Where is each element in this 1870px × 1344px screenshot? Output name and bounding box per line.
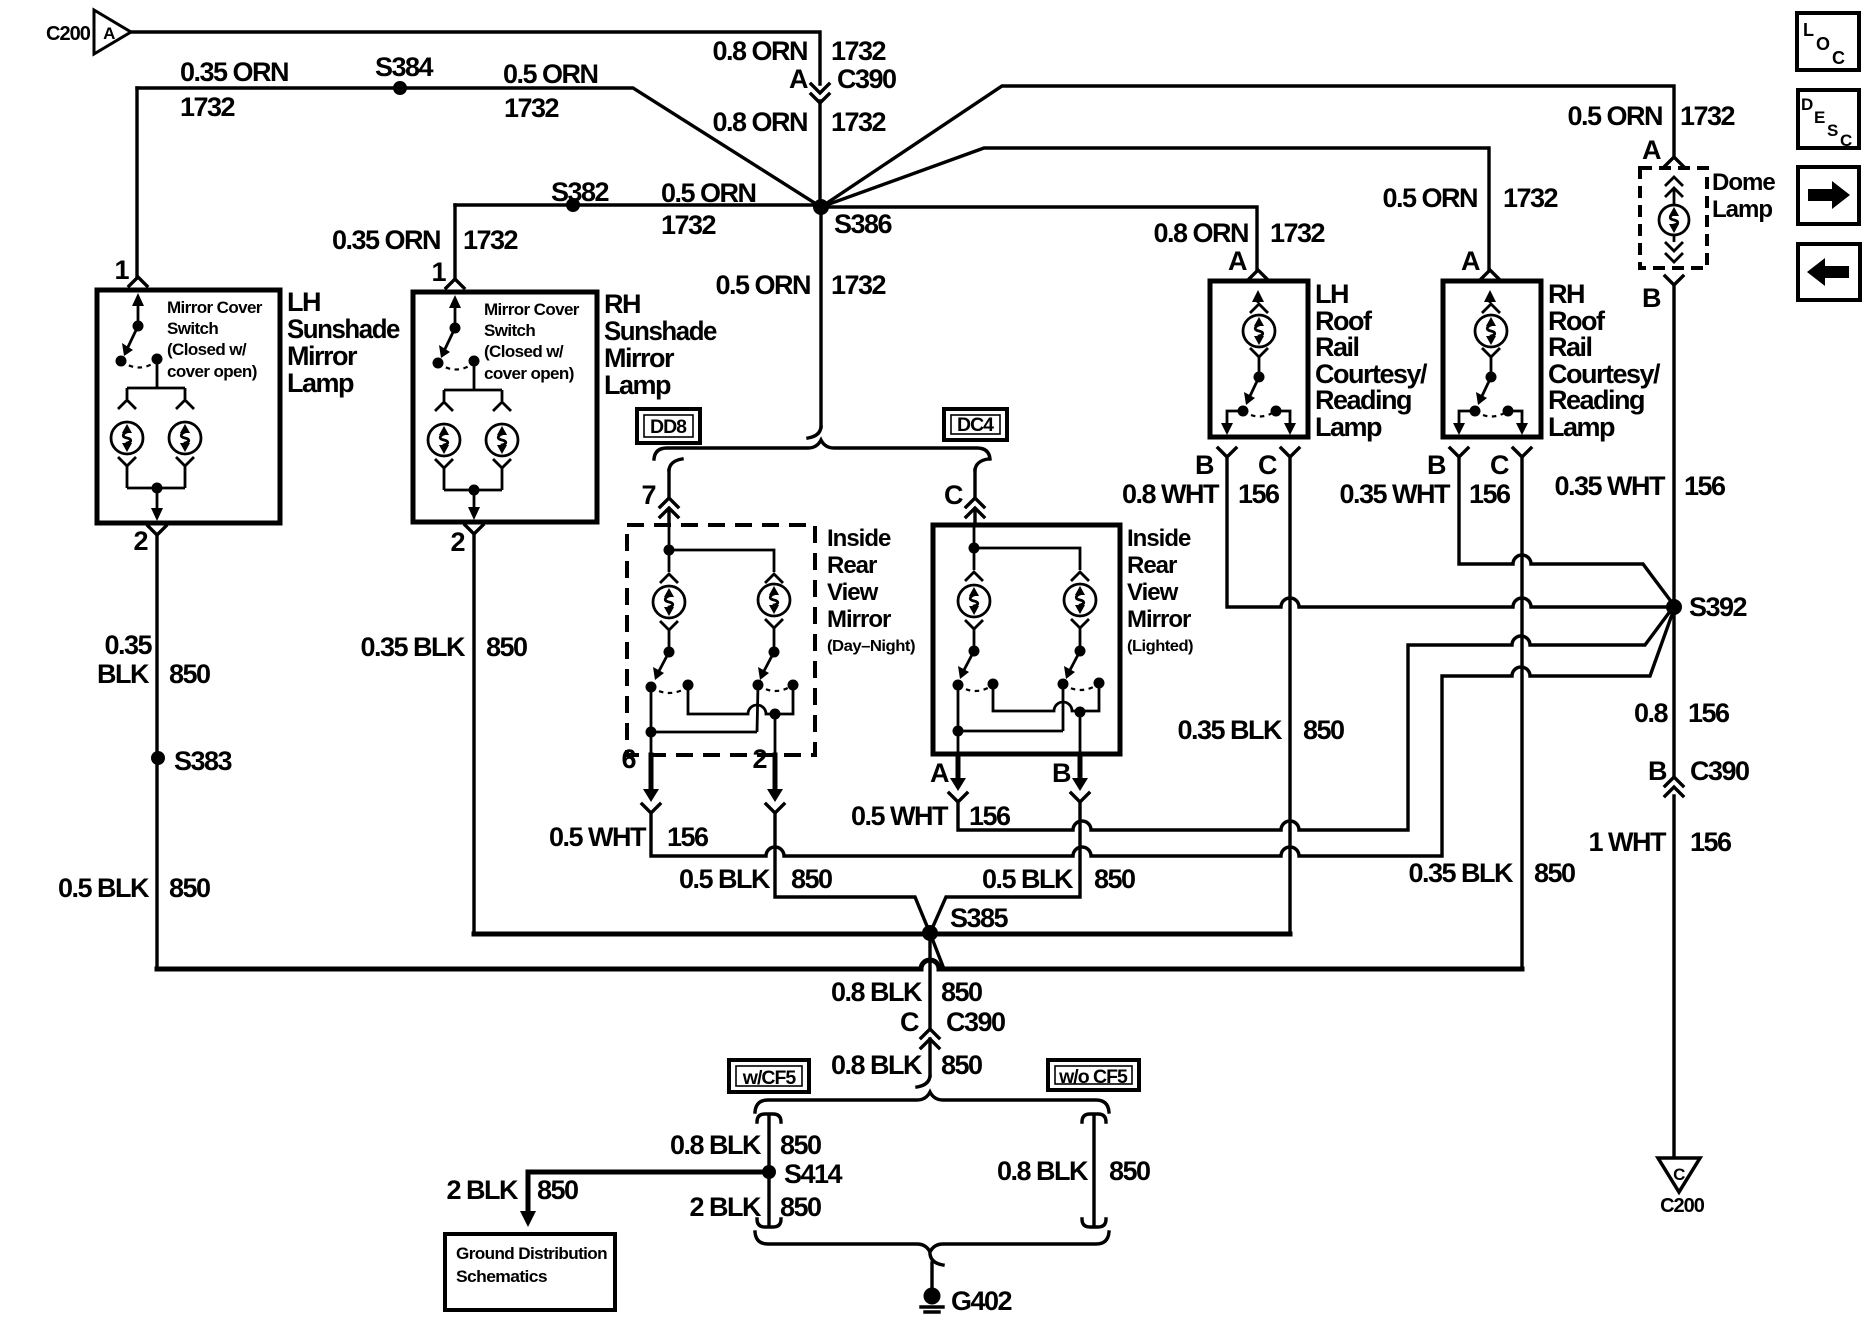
label 0.35 BLK | 850 (RH drop)	[360, 632, 527, 662]
harness option brace w/CF5 / w/o CF5 (top)	[755, 1092, 1109, 1112]
svg-text:0.5 WHT: 0.5 WHT	[549, 822, 647, 852]
svg-text:Lamp: Lamp	[1548, 412, 1615, 442]
ground G402	[921, 1286, 1012, 1316]
pin A terminal (RH roof)	[1481, 270, 1499, 279]
svg-text:C: C	[900, 1007, 919, 1037]
wire LH roof pin C down to ground bus	[1288, 457, 1291, 934]
svg-text:Rail: Rail	[1315, 332, 1359, 362]
svg-text:C390: C390	[946, 1007, 1005, 1037]
svg-text:1732: 1732	[1680, 101, 1735, 131]
label Inside Rear View Mirror (Lighted)	[1127, 525, 1193, 655]
svg-text:156: 156	[1238, 479, 1280, 509]
svg-text:cover open): cover open)	[167, 362, 257, 381]
pin A terminal (LH roof)	[1249, 270, 1267, 279]
svg-text:A: A	[789, 64, 808, 94]
svg-text:B: B	[1648, 756, 1667, 786]
pin 1 terminal (LH cover switch)	[129, 277, 147, 286]
switch arm (RH cover switch)	[433, 295, 480, 370]
legend box LOC	[1797, 13, 1859, 70]
wire RH roof pin B to S392 (branch y=564)	[1459, 457, 1673, 604]
internal feed split (Day-Night)	[660, 525, 783, 583]
label 0.35 WHT | 156 (right side)	[1554, 471, 1726, 501]
svg-text:DC4: DC4	[957, 414, 994, 436]
label 0.8 ORN 1732 (below C390)	[712, 107, 885, 137]
svg-text:Inside: Inside	[1127, 525, 1191, 552]
pin B terminal (RH roof)	[1450, 448, 1468, 457]
wire 0.35 BLK 850 (LH ground drop)	[155, 535, 158, 969]
svg-text:2: 2	[450, 527, 464, 557]
svg-text:S382: S382	[551, 177, 609, 207]
svg-text:C: C	[1840, 131, 1852, 150]
svg-text:w/CF5: w/CF5	[742, 1067, 797, 1089]
svg-text:156: 156	[1690, 827, 1732, 857]
label 0.35 ORN / 1732 (top left)	[180, 57, 288, 122]
svg-text:Dome: Dome	[1712, 169, 1775, 196]
svg-text:S386: S386	[834, 209, 893, 239]
wire dome lamp B down right side 0.35 WHT 156	[1672, 285, 1675, 777]
wire 0.35 ORN 1732 (left drop to LH mirror cover switch)	[135, 88, 138, 277]
label 0.8 BLK | 850 (below C390)	[831, 1050, 982, 1080]
svg-text:w/o CF5: w/o CF5	[1058, 1066, 1128, 1088]
pin A terminal (dome lamp)	[1665, 157, 1683, 166]
label 2 BLK | 850 (w/CF5 lower)	[689, 1192, 821, 1222]
connector C200 pin A (top left triangle)	[46, 10, 131, 54]
bulb R (RH cover switch)	[486, 424, 518, 456]
wire 0.8 BLK 850 (below C390)	[928, 1039, 931, 1076]
pin C terminal (LH roof)	[1281, 448, 1299, 457]
svg-text:C390: C390	[1690, 756, 1749, 786]
label 0.5 WHT | 156 (pin A)	[851, 801, 1011, 831]
splice S385	[922, 903, 1009, 941]
label 0.5 ORN | 1732 (dome feed)	[1567, 101, 1734, 131]
wire 0.8 ORN 1732 (C390 to S386)	[818, 101, 821, 207]
bulb feed (RH roof)	[1482, 290, 1500, 313]
off-page arrow (to ground distribution)	[520, 1211, 536, 1227]
svg-text:1732: 1732	[463, 225, 518, 255]
internal wiring to pin B (Lighted)	[993, 683, 1099, 754]
svg-text:2 BLK: 2 BLK	[446, 1175, 519, 1205]
wire LH roof pin B to S392 (main horizontal y=607)	[1227, 457, 1674, 607]
svg-text:Rear: Rear	[1127, 552, 1177, 579]
pin C terminal (RH roof)	[1513, 448, 1531, 457]
label LH Sunshade Mirror Lamp	[287, 287, 400, 398]
label LH Roof Rail Courtesy/Reading Lamp	[1315, 279, 1428, 442]
label 0.35 BLK | 850 (LH roof pin C)	[1177, 715, 1344, 745]
svg-text:0.8 ORN: 0.8 ORN	[712, 107, 807, 137]
svg-text:0.5 WHT: 0.5 WHT	[851, 801, 949, 831]
svg-text:850: 850	[941, 977, 982, 1007]
label 0.5 BLK | 850 (pin 2)	[679, 864, 832, 894]
legend box right arrow	[1798, 167, 1859, 224]
svg-text:0.8 BLK: 0.8 BLK	[831, 1050, 923, 1080]
internal wiring to pin A (Lighted)	[953, 684, 1064, 754]
svg-text:B: B	[1052, 758, 1071, 788]
label 0.8 BLK | 850 (w/o CF5)	[997, 1156, 1150, 1186]
svg-text:Reading: Reading	[1548, 385, 1644, 415]
pin C drop with hook and connector	[944, 459, 988, 525]
bulb L (LH cover switch)	[111, 422, 143, 454]
label 0.35 BLK | 850 (two lines)	[97, 630, 210, 689]
svg-text:850: 850	[1094, 864, 1135, 894]
svg-text:View: View	[1127, 579, 1179, 606]
pin A connector (below Lighted box)	[930, 754, 967, 802]
svg-text:0.8 ORN: 0.8 ORN	[712, 36, 807, 66]
svg-text:S385: S385	[950, 903, 1009, 933]
dome lamp internal connector top	[1665, 177, 1683, 205]
wire S382 horizontal 0.5 ORN 1732	[455, 203, 821, 206]
svg-text:0.5 ORN: 0.5 ORN	[1567, 101, 1662, 131]
pin 2 connector (below Day-Night box)	[752, 744, 784, 813]
wire S385 down 0.8 BLK 850	[928, 934, 931, 1029]
svg-text:1732: 1732	[661, 210, 716, 240]
label 2 BLK | 850 (left)	[446, 1175, 578, 1205]
switch outputs to pins B and C (RH roof)	[1453, 411, 1528, 435]
svg-text:0.5 ORN: 0.5 ORN	[503, 59, 598, 89]
svg-text:Rear: Rear	[827, 552, 877, 579]
svg-text:0.8: 0.8	[1634, 698, 1669, 728]
svg-text:Switch: Switch	[484, 321, 535, 340]
svg-text:0.5 ORN: 0.5 ORN	[715, 270, 810, 300]
svg-text:2 BLK: 2 BLK	[689, 1192, 762, 1222]
bulb terminals top (RH cover switch)	[435, 402, 453, 411]
wire switch to bulbs (LH cover switch)	[127, 359, 185, 399]
svg-text:E: E	[1814, 108, 1825, 127]
svg-text:850: 850	[537, 1175, 578, 1205]
connector C200 pin C (bottom right triangle)	[1658, 1158, 1705, 1217]
internal feed split (Lighted)	[965, 525, 1089, 581]
svg-text:156: 156	[1469, 479, 1511, 509]
svg-text:1732: 1732	[180, 92, 235, 122]
svg-text:7: 7	[641, 480, 655, 510]
pin B terminal (dome lamp)	[1665, 276, 1683, 285]
wire end hook above DD8/DC4 brace	[808, 427, 821, 438]
svg-text:0.5 ORN: 0.5 ORN	[661, 178, 756, 208]
tag box w/o CF5	[1048, 1060, 1139, 1090]
svg-text:(Lighted): (Lighted)	[1127, 638, 1193, 655]
svg-text:A: A	[103, 24, 115, 43]
svg-text:Reading: Reading	[1315, 385, 1411, 415]
connector A C390 (inline, pointing down)	[789, 64, 896, 103]
svg-text:Mirror Cover: Mirror Cover	[167, 298, 263, 317]
svg-text:C390: C390	[837, 64, 896, 94]
svg-text:1732: 1732	[831, 107, 886, 137]
label 0.35 ORN | 1732	[332, 225, 518, 255]
svg-text:850: 850	[780, 1192, 821, 1222]
label 0.8 ORN 1732 (above C390)	[712, 36, 885, 66]
svg-text:Sunshade: Sunshade	[604, 316, 717, 346]
pin 2 terminal (RH cover switch)	[465, 525, 483, 534]
svg-text:LH: LH	[1315, 279, 1348, 309]
bulb terminals bottom + join (RH cover switch)	[435, 459, 511, 520]
wire pin 6 route to S392	[651, 609, 1674, 856]
splice S386	[813, 199, 893, 239]
legend box left arrow	[1798, 244, 1860, 300]
svg-text:1732: 1732	[831, 270, 886, 300]
pin 7 drop with hook and connector	[641, 459, 682, 525]
wire bottom horizontal to S392 branch (y=969)	[157, 960, 1522, 969]
svg-text:B: B	[1642, 283, 1661, 313]
pin labels B C (RH roof)	[1427, 450, 1509, 480]
wire 2 BLK 850 to ground distribution	[528, 1172, 769, 1209]
text Mirror Cover Switch (LH)	[167, 298, 263, 381]
svg-text:View: View	[827, 579, 879, 606]
svg-text:C: C	[1673, 1165, 1685, 1184]
ground distribution schematics box	[445, 1234, 615, 1310]
label 0.5 WHT | 156 (pin 6)	[549, 822, 709, 852]
svg-text:S383: S383	[174, 746, 233, 776]
svg-text:2: 2	[752, 744, 766, 774]
svg-text:Rail: Rail	[1548, 332, 1592, 362]
svg-text:A: A	[1642, 135, 1661, 165]
label RH Sunshade Mirror Lamp	[604, 289, 717, 400]
svg-text:0.8 WHT: 0.8 WHT	[1122, 479, 1220, 509]
wire 1 WHT 156 (to C200-C)	[1672, 796, 1675, 1156]
svg-text:0.35 ORN: 0.35 ORN	[180, 57, 288, 87]
svg-text:0.35 WHT: 0.35 WHT	[1339, 479, 1451, 509]
bulb R (LH cover switch)	[169, 422, 201, 454]
internal wiring to pin 6 (Day-Night)	[646, 685, 759, 755]
bulb L (Lighted)	[958, 585, 990, 617]
bulb L (Day-Night)	[653, 586, 685, 618]
svg-text:A: A	[1228, 246, 1247, 276]
svg-text:1 WHT: 1 WHT	[1589, 827, 1668, 857]
wire S386 to RH roof rail feed 0.5 ORN 1732 (second diagonal)	[821, 148, 1489, 269]
connector C C390 (inline, pointing up)	[900, 1007, 1005, 1048]
bulb R (Lighted)	[1064, 584, 1096, 616]
label Inside Rear View Mirror (Day-Night)	[827, 525, 915, 655]
splice S414	[762, 1159, 843, 1189]
label 0.5 BLK | 850	[58, 873, 210, 903]
svg-text:1732: 1732	[504, 93, 559, 123]
label 1 WHT | 156	[1589, 827, 1733, 857]
svg-text:A: A	[930, 758, 949, 788]
svg-text:0.8 BLK: 0.8 BLK	[670, 1130, 762, 1160]
wire S386 to LH roof rail feed 0.8 ORN 1732	[821, 207, 1257, 269]
connector B C390 (inline, pointing up)	[1648, 756, 1749, 796]
label 0.8 BLK | 850 (above C390)	[831, 977, 982, 1007]
svg-text:Lamp: Lamp	[1315, 412, 1382, 442]
tag box w/CF5	[729, 1060, 809, 1092]
label RH Roof Rail Courtesy/Reading Lamp	[1548, 279, 1661, 442]
switch R (Lighted)	[1058, 619, 1105, 690]
svg-text:LH: LH	[287, 287, 320, 317]
svg-text:(Day–Night): (Day–Night)	[827, 638, 915, 655]
svg-text:0.35: 0.35	[104, 630, 152, 660]
svg-text:0.35 ORN: 0.35 ORN	[332, 225, 440, 255]
switch L (Day-Night)	[646, 621, 694, 693]
bulb terminals top (LH cover switch)	[118, 400, 136, 409]
harness option brace DD8/DC4	[654, 440, 990, 459]
svg-text:RH: RH	[1548, 279, 1584, 309]
svg-text:1732: 1732	[1503, 183, 1558, 213]
LH mirror cover switch box	[97, 290, 280, 523]
svg-text:1732: 1732	[831, 36, 886, 66]
svg-text:850: 850	[1109, 1156, 1150, 1186]
svg-text:C200: C200	[46, 23, 91, 45]
wire 0.8 ORN 1732 from C200-A to C390 (top horizontal + vertical)	[131, 32, 820, 84]
svg-text:0.5 BLK: 0.5 BLK	[58, 873, 150, 903]
switch L (Lighted)	[953, 620, 999, 691]
internal wiring to pin 2 (Day-Night)	[688, 685, 793, 755]
svg-text:0.35 WHT: 0.35 WHT	[1554, 471, 1666, 501]
dome lamp dashed box	[1640, 168, 1707, 268]
wire pin 2 route to S385	[775, 813, 929, 931]
pin 6 connector (below Day-Night box)	[621, 744, 660, 813]
wire S384 horizontal 0.5 ORN 1732	[137, 88, 821, 207]
svg-text:(Closed w/: (Closed w/	[484, 342, 564, 361]
label 0.5 BLK | 850 (pin B)	[982, 864, 1135, 894]
bulb terminals bottom + join (LH cover switch)	[118, 457, 194, 521]
svg-text:Mirror: Mirror	[827, 606, 891, 633]
splice S384	[375, 52, 434, 95]
svg-text:156: 156	[667, 822, 709, 852]
wire S386 to dome lamp feed 0.5 ORN 1732 (upper right diagonal)	[821, 86, 1674, 207]
svg-text:C: C	[1832, 48, 1845, 68]
svg-text:O: O	[1816, 34, 1830, 54]
label 0.8 WHT | 156 (LH roof pin B)	[1122, 479, 1280, 509]
wire switch to bulbs (RH cover switch)	[444, 361, 502, 401]
tag box DD8	[637, 409, 700, 443]
svg-text:1: 1	[114, 255, 129, 285]
svg-text:0.5 BLK: 0.5 BLK	[982, 864, 1074, 894]
inside rear view mirror (Day-Night) dashed box	[627, 525, 815, 755]
svg-text:B: B	[1195, 450, 1214, 480]
svg-text:156: 156	[969, 801, 1011, 831]
svg-text:850: 850	[1303, 715, 1344, 745]
svg-text:Lamp: Lamp	[1712, 196, 1772, 223]
svg-text:Mirror: Mirror	[604, 343, 675, 373]
label 0.5 ORN / 1732 (left of S386)	[661, 178, 756, 240]
svg-text:0.35 BLK: 0.35 BLK	[360, 632, 466, 662]
svg-text:850: 850	[486, 632, 527, 662]
svg-text:(Closed w/: (Closed w/	[167, 340, 247, 359]
label 0.5 ORN / 1732 (right of S384)	[503, 59, 598, 123]
svg-text:Lamp: Lamp	[287, 368, 354, 398]
svg-text:Mirror: Mirror	[1127, 606, 1191, 633]
svg-text:0.8 BLK: 0.8 BLK	[997, 1156, 1089, 1186]
pin 2 terminal (LH cover switch)	[148, 526, 166, 535]
svg-text:0.35 BLK: 0.35 BLK	[1177, 715, 1283, 745]
wire S386 down 0.5 ORN 1732 (to DD8/DC4 split)	[819, 207, 822, 427]
label Dome Lamp	[1712, 169, 1775, 223]
svg-text:1732: 1732	[1270, 218, 1325, 248]
bulb feed (LH roof)	[1250, 290, 1268, 313]
harness option brace (bottom, to G402)	[755, 1232, 1109, 1252]
dome lamp internal connector bottom	[1665, 235, 1683, 262]
wire RH roof pin C down to ground bus	[1520, 457, 1523, 969]
wire hook below bottom brace	[930, 1254, 943, 1265]
svg-text:S414: S414	[784, 1159, 843, 1189]
switch outputs to pins B and C (LH roof)	[1221, 411, 1296, 435]
w/CF5 branch bracket	[757, 1114, 781, 1227]
wire 0.35 ORN 1732 (drop to RH mirror cover switch)	[453, 205, 456, 279]
svg-text:cover open): cover open)	[484, 364, 574, 383]
label 0.5 ORN | 1732 (RH roof feed)	[1382, 183, 1557, 213]
label 0.8 ORN | 1732 (LH roof feed)	[1153, 218, 1324, 248]
svg-text:C: C	[1490, 450, 1509, 480]
bulb L (RH cover switch)	[428, 424, 460, 456]
svg-text:Inside: Inside	[827, 525, 891, 552]
svg-text:Lamp: Lamp	[604, 370, 671, 400]
svg-text:0.8 BLK: 0.8 BLK	[831, 977, 923, 1007]
splice S382	[551, 177, 609, 212]
wire ground bus horizontal y=934 to S385	[474, 932, 1290, 937]
RH mirror cover switch box	[413, 292, 597, 522]
switch arm (LH cover switch)	[116, 293, 163, 368]
bulb (LH roof)	[1243, 315, 1275, 347]
svg-text:1: 1	[431, 257, 446, 287]
pin B connector (below Lighted box)	[1052, 754, 1089, 802]
svg-text:2: 2	[133, 526, 147, 556]
svg-text:B: B	[1427, 450, 1446, 480]
svg-text:C: C	[944, 480, 963, 510]
switch R (Day-Night)	[753, 619, 799, 691]
label 0.5 ORN | 1732 (S386 down)	[715, 270, 885, 300]
svg-text:0.5 BLK: 0.5 BLK	[679, 864, 771, 894]
svg-text:0.5 ORN: 0.5 ORN	[1382, 183, 1477, 213]
svg-text:G402: G402	[951, 1286, 1012, 1316]
RH roof rail courtesy/reading lamp box	[1443, 281, 1541, 437]
svg-text:850: 850	[169, 873, 210, 903]
svg-text:850: 850	[791, 864, 832, 894]
svg-text:S: S	[1827, 121, 1838, 140]
label 0.8 | 156 (below S392)	[1634, 698, 1730, 728]
svg-text:6: 6	[621, 744, 636, 774]
wire S385 diagonal to lower ground bus	[930, 933, 944, 969]
splice S392	[1666, 592, 1747, 622]
svg-text:D: D	[1801, 95, 1813, 114]
label 0.8 BLK | 850 (w/CF5 upper)	[670, 1130, 821, 1160]
svg-text:156: 156	[1684, 471, 1726, 501]
svg-text:850: 850	[780, 1130, 821, 1160]
svg-text:L: L	[1803, 20, 1814, 40]
wire pin B route to S385	[931, 802, 1080, 931]
svg-text:BLK: BLK	[97, 659, 150, 689]
svg-text:850: 850	[1534, 858, 1575, 888]
LH roof rail courtesy/reading lamp box	[1210, 281, 1308, 437]
tag box DC4	[944, 409, 1007, 440]
pin labels B C (LH roof)	[1195, 450, 1277, 480]
wire end hook above CF5 brace	[917, 1076, 930, 1087]
svg-text:Schematics: Schematics	[456, 1267, 547, 1286]
bulb R (Day-Night)	[758, 584, 790, 616]
svg-text:S392: S392	[1689, 592, 1747, 622]
switch (LH roof)	[1238, 348, 1282, 417]
wire to G402	[930, 1263, 933, 1288]
svg-text:S384: S384	[375, 52, 434, 82]
svg-text:RH: RH	[604, 289, 640, 319]
svg-text:C: C	[1258, 450, 1277, 480]
svg-text:0.8 ORN: 0.8 ORN	[1153, 218, 1248, 248]
svg-text:A: A	[1461, 246, 1480, 276]
legend box DESC	[1798, 90, 1859, 150]
svg-text:Sunshade: Sunshade	[287, 314, 400, 344]
switch (RH roof)	[1470, 348, 1514, 417]
splice S383	[151, 746, 233, 776]
bulb (RH roof)	[1475, 315, 1507, 347]
svg-text:Switch: Switch	[167, 319, 218, 338]
wire 0.35 BLK 850 (RH ground drop)	[472, 534, 475, 934]
label 0.35 BLK | 850 (RH roof pin C)	[1408, 858, 1575, 888]
svg-text:156: 156	[1688, 698, 1730, 728]
pin B terminal (LH roof)	[1218, 448, 1236, 457]
bulb (dome lamp)	[1659, 205, 1689, 235]
svg-text:Ground Distribution: Ground Distribution	[456, 1244, 607, 1263]
pin 1 terminal (RH cover switch)	[446, 279, 464, 288]
text Mirror Cover Switch (RH)	[484, 300, 580, 383]
w/o CF5 branch bracket	[1082, 1114, 1106, 1227]
wire pin A route to S392	[958, 606, 1674, 830]
